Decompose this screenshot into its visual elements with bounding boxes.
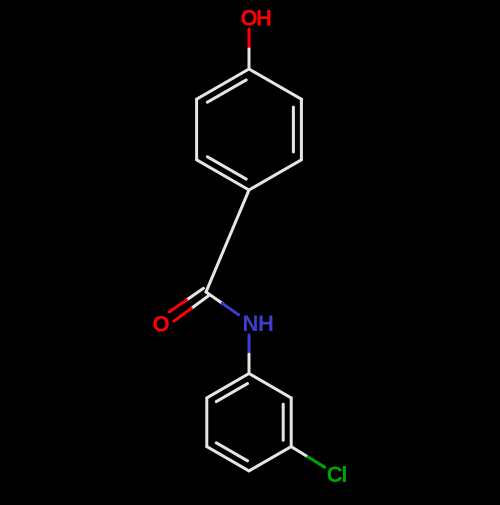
- svg-text:O: O: [240, 5, 257, 30]
- C=O double bond line1 gray half: [186, 288, 203, 300]
- bond N-ring2 blue half: [248, 335, 251, 354]
- chain CH2-CH2 bonds (collinear): [206, 190, 249, 292]
- C=O double bond line1 red half: [169, 300, 186, 312]
- bond N-ring2 gray half: [248, 354, 251, 373]
- C=O double bond line2 gray half: [191, 296, 208, 309]
- ring1 inner double B-C: [292, 107, 295, 152]
- ring1 inner double D-E: [207, 157, 246, 179]
- C=O double bond line2 red half: [174, 309, 191, 322]
- bond O(phenol)-C1 gray half: [248, 49, 251, 69]
- bond ring2-Cl green half: [308, 457, 325, 467]
- ring2 inner double TL2-T2: [216, 384, 247, 402]
- svg-text:H: H: [256, 5, 272, 30]
- bond ring2-Cl gray half: [291, 447, 308, 457]
- svg-text:l: l: [341, 462, 347, 487]
- svg-text:H: H: [258, 311, 274, 336]
- ring1 edge E-F: [195, 99, 198, 160]
- ring2 inner double TR2-BR2: [282, 404, 285, 440]
- ring2 edge BR2-Bot2: [249, 447, 291, 471]
- ring1 edge D-E: [197, 160, 249, 190]
- bond O(phenol)-C1 red half: [248, 29, 251, 49]
- ring1 edge C-D: [249, 160, 301, 190]
- svg-text:O: O: [152, 312, 169, 337]
- ring2 edge Bot2-BL2: [207, 447, 249, 471]
- ring1 edge B-C: [300, 99, 303, 160]
- bond C7-N gray half: [206, 292, 222, 303]
- ring2 edge TL2-T2: [207, 374, 249, 398]
- svg-text:N: N: [243, 311, 259, 336]
- ring1 inner double F-A: [207, 80, 246, 102]
- ring2 edge TR2-BR2: [290, 398, 293, 447]
- ring2 edge T2-TR2: [249, 374, 291, 398]
- ring1 edge A-B: [249, 69, 301, 99]
- ring2 inner double Bot2-BL2: [216, 443, 247, 461]
- ring2 edge BL2-TL2: [205, 398, 208, 447]
- ring1 edge F-A: [197, 69, 249, 99]
- bond C7-N blue half: [222, 303, 238, 314]
